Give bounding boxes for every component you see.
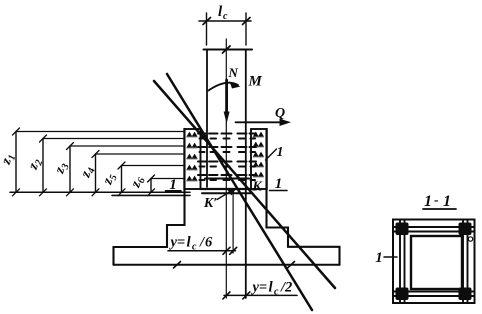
- svg-text:z3: z3: [52, 161, 72, 177]
- column: [204, 50, 253, 299]
- svg-text:c: c: [192, 242, 197, 253]
- section mark 1 left: [166, 177, 182, 193]
- svg-text:1: 1: [443, 193, 451, 210]
- svg-text:1: 1: [424, 193, 432, 210]
- leader from K': [217, 188, 237, 200]
- dimension z3: [67, 143, 185, 196]
- grout dashes between column and socket: [198, 134, 256, 181]
- section rebar right pair: [463, 220, 468, 304]
- svg-text:1: 1: [275, 176, 283, 192]
- dimension line l_c: [199, 13, 251, 45]
- dimension y=lc/6: [168, 189, 237, 254]
- foundation right profile: [267, 129, 340, 265]
- section rebar top pair: [393, 227, 475, 232]
- section rebar left pair: [400, 220, 405, 304]
- socket right wall hatch: [253, 132, 264, 178]
- section inner square: [411, 236, 462, 289]
- svg-text:/6: /6: [199, 235, 213, 251]
- column centerline: [223, 39, 231, 298]
- shear arrow Q: [236, 119, 292, 126]
- leader callout 1 (wall reinforcement): [266, 149, 277, 160]
- dimension z1: [13, 128, 185, 196]
- svg-text:K: K: [251, 180, 263, 195]
- svg-text:M: M: [248, 74, 263, 90]
- label y=lc/2: [251, 280, 293, 298]
- foundation top surface left: [112, 194, 190, 196]
- svg-text:Q: Q: [275, 106, 285, 121]
- socket left wall hatch: [187, 132, 198, 182]
- foundation bottom line: [114, 262, 340, 269]
- socket bottom: [201, 189, 252, 193]
- crack line A: [154, 81, 335, 288]
- svg-text:K′: K′: [203, 196, 217, 211]
- svg-text:c: c: [274, 287, 279, 298]
- svg-text:c: c: [223, 11, 228, 22]
- ground baseline (z dims): [10, 191, 190, 193]
- section mark 1 right: [270, 176, 288, 192]
- section outer square: [393, 220, 475, 304]
- svg-text:1: 1: [375, 250, 383, 266]
- crack line B: [167, 74, 312, 310]
- dimension z2: [40, 135, 185, 196]
- svg-text:l: l: [269, 280, 274, 296]
- svg-text:z6: z6: [128, 175, 148, 191]
- dimension z6: [148, 175, 185, 196]
- foundation left profile: [114, 129, 185, 265]
- svg-text:y=: y=: [251, 280, 268, 296]
- section small circle: [468, 237, 472, 241]
- moment arc M: [209, 82, 241, 91]
- section title 1-1: [423, 193, 456, 210]
- svg-text:z5: z5: [100, 172, 120, 188]
- section rebar bottom pair: [393, 292, 475, 297]
- force arrow N: [224, 80, 230, 124]
- label y=lc/6: [169, 235, 214, 253]
- dimension z4: [92, 151, 184, 196]
- socket left wall: [184, 129, 200, 189]
- dimension z5: [118, 162, 184, 196]
- socket right wall: [251, 129, 267, 189]
- section corner blobs: [396, 223, 472, 301]
- svg-text:1: 1: [277, 145, 284, 160]
- dimension y=lc/2: [223, 292, 297, 299]
- svg-text:l: l: [187, 235, 192, 251]
- section leader 1: [375, 250, 397, 266]
- svg-text:/2: /2: [280, 280, 292, 296]
- svg-text:y=: y=: [169, 235, 186, 251]
- svg-text:N: N: [228, 65, 239, 80]
- svg-text:-: -: [434, 193, 439, 208]
